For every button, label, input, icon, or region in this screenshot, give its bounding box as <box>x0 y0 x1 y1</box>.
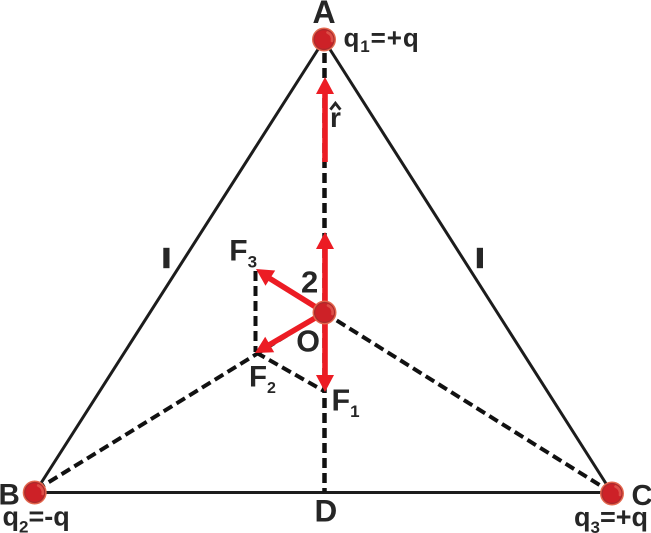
charge ball at B <box>23 481 47 505</box>
wire base BC <box>35 491 612 494</box>
wire dashed F3tip-F2tip <box>254 271 258 352</box>
charge ball at O <box>313 301 337 325</box>
svg-text:O: O <box>296 325 320 359</box>
svg-text:q2=-q: q2=-q <box>3 501 70 533</box>
arrow F1 downward from O <box>316 313 334 393</box>
wire dashed OC <box>324 313 610 492</box>
wire dashed altitude AD <box>322 53 327 492</box>
svg-text:D: D <box>315 493 338 529</box>
arrow 2F1 upward from O <box>316 232 334 313</box>
arrow r-hat upward <box>316 77 334 162</box>
svg-text:q3=+q: q3=+q <box>574 502 648 533</box>
svg-text:q1=+q: q1=+q <box>344 22 420 56</box>
label l left side <box>163 248 169 268</box>
svg-text:A: A <box>312 0 335 30</box>
arrow F2 down-left from O <box>255 313 325 354</box>
arrow F3 up-left from O <box>256 269 325 313</box>
charge ball at A <box>312 28 336 52</box>
wire side AC <box>324 40 612 493</box>
wire dashed BO <box>36 313 324 491</box>
charge ball at C <box>600 482 624 506</box>
svg-text:2: 2 <box>301 265 318 300</box>
label l right side <box>477 248 483 268</box>
wire dashed F2tip-F1tip <box>256 353 324 392</box>
wire side AB <box>35 40 324 493</box>
